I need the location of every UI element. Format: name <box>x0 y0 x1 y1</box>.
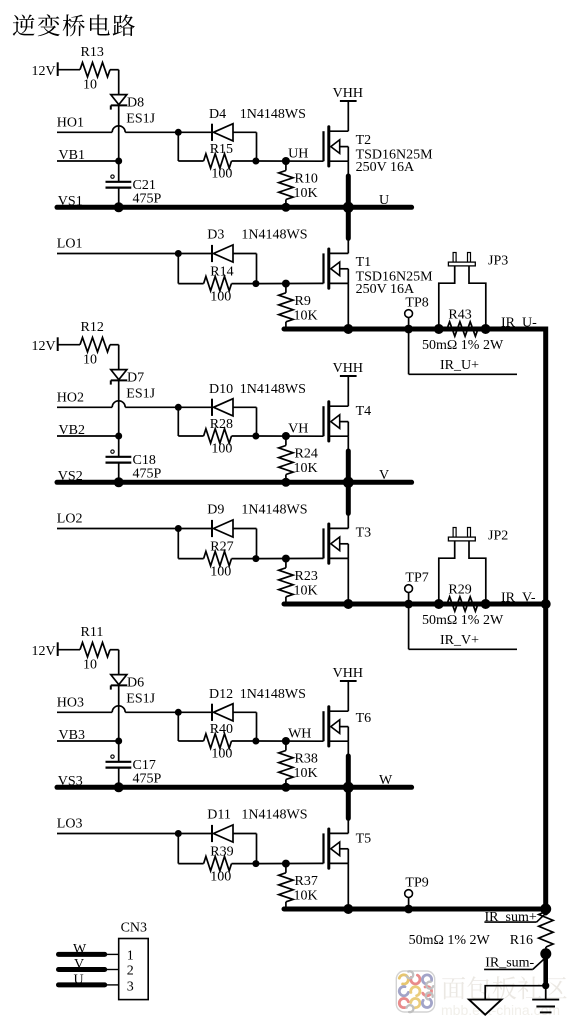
watermark logo mbb.eet-china.com <box>442 977 465 1000</box>
diode D6 ES1J <box>111 675 156 707</box>
svg-text:VB1: VB1 <box>59 148 85 163</box>
resistor R23 10K <box>279 559 318 604</box>
resistor R38 10K <box>279 741 318 792</box>
resistor R40 100 <box>178 712 259 761</box>
svg-text:LO3: LO3 <box>57 817 83 832</box>
svg-text:R9: R9 <box>295 294 311 309</box>
svg-text:HO1: HO1 <box>57 116 84 131</box>
svg-text:100: 100 <box>210 870 231 885</box>
svg-text:VB2: VB2 <box>59 423 85 438</box>
svg-text:IR_V-: IR_V- <box>501 591 536 606</box>
svg-text:1N4148WS: 1N4148WS <box>241 808 307 823</box>
svg-text:R39: R39 <box>210 844 233 859</box>
transistor T5 TSD16N25M <box>324 829 349 868</box>
wire <box>343 161 354 253</box>
jumper JP3 <box>453 253 456 263</box>
jumper JP2 <box>453 528 456 538</box>
svg-text:TP9: TP9 <box>405 876 428 891</box>
test point TP7 <box>405 585 413 593</box>
svg-text:1N4148WS: 1N4148WS <box>240 687 306 702</box>
wire <box>256 280 324 288</box>
title text 逆变桥电路 <box>13 14 35 35</box>
resistor R39 100 <box>178 834 259 885</box>
svg-text:IR_sum-: IR_sum- <box>485 956 534 971</box>
svg-text:10K: 10K <box>294 584 318 599</box>
svg-text:mbb.eet-china.com: mbb.eet-china.com <box>441 1002 560 1018</box>
node VHH <box>333 666 363 711</box>
transistor T6 TSD16N25M <box>324 707 349 746</box>
capacitor C21 475P <box>106 175 162 212</box>
svg-text:2: 2 <box>127 963 134 978</box>
wire <box>343 436 354 528</box>
transistor T1 TSD16N25M <box>324 249 434 297</box>
node VB2 <box>57 423 122 439</box>
svg-text:R37: R37 <box>295 874 318 889</box>
resistor R16 50mΩ <box>539 912 553 948</box>
svg-text:CN3: CN3 <box>121 921 147 936</box>
svg-text:D7: D7 <box>127 371 144 386</box>
svg-text:VHH: VHH <box>333 86 363 101</box>
svg-text:V: V <box>74 957 84 972</box>
node VB1 <box>57 148 122 164</box>
wire <box>347 283 349 329</box>
node V stub <box>59 967 105 972</box>
svg-text:10K: 10K <box>294 889 318 904</box>
svg-text:10: 10 <box>83 78 97 93</box>
wire <box>343 741 354 833</box>
svg-text:1N4148WS: 1N4148WS <box>241 228 307 243</box>
transistor T2 TSD16N25M <box>324 127 434 175</box>
svg-text:IR_U+: IR_U+ <box>440 358 479 373</box>
node IR_U+ <box>408 329 410 374</box>
node IR_V+ <box>408 604 410 649</box>
svg-text:475P: 475P <box>133 467 162 482</box>
svg-text:LO1: LO1 <box>57 237 83 252</box>
diode D7 ES1J <box>111 370 156 402</box>
resistor R24 10K <box>279 436 318 487</box>
wire <box>347 863 349 909</box>
svg-text:50mΩ 1% 2W: 50mΩ 1% 2W <box>422 613 504 628</box>
svg-text:D4: D4 <box>209 107 226 122</box>
svg-text:R28: R28 <box>210 417 233 432</box>
node W stub <box>59 952 105 957</box>
resistor R15 100 <box>178 132 259 181</box>
svg-text:ES1J: ES1J <box>126 691 155 706</box>
svg-text:VS1: VS1 <box>58 194 83 209</box>
node U stub <box>59 982 105 987</box>
svg-text:12V: 12V <box>32 64 56 79</box>
node VS1 / phase bus U <box>57 193 412 209</box>
wire phase V current bus <box>284 602 546 607</box>
svg-text:JP3: JP3 <box>488 254 508 269</box>
node VB3 <box>57 728 122 744</box>
svg-text:D3: D3 <box>207 228 224 243</box>
node 12V (section V) <box>32 337 81 354</box>
node VHH <box>333 361 363 406</box>
svg-text:HO3: HO3 <box>57 696 84 711</box>
svg-text:10: 10 <box>83 353 97 368</box>
node LO1 <box>57 237 182 257</box>
wire <box>118 106 120 182</box>
wire <box>347 558 349 604</box>
svg-text:R38: R38 <box>295 752 318 767</box>
svg-text:1N4148WS: 1N4148WS <box>241 503 307 518</box>
svg-text:3: 3 <box>127 979 134 994</box>
svg-text:100: 100 <box>210 565 231 580</box>
svg-text:100: 100 <box>211 442 232 457</box>
svg-text:VH: VH <box>288 421 308 436</box>
svg-text:WH: WH <box>288 726 311 741</box>
node VH <box>256 421 324 440</box>
svg-text:D10: D10 <box>209 382 233 397</box>
svg-text:VS3: VS3 <box>58 774 83 789</box>
resistor R12 <box>80 320 119 370</box>
svg-text:1N4148WS: 1N4148WS <box>240 107 306 122</box>
svg-text:D12: D12 <box>209 687 233 702</box>
diode D12 1N4148WS <box>178 687 306 741</box>
node 12V (section W) <box>32 642 81 659</box>
diode D11 1N4148WS <box>178 808 307 864</box>
svg-text:ES1J: ES1J <box>126 386 155 401</box>
svg-text:D6: D6 <box>127 676 144 691</box>
svg-text:IR_V+: IR_V+ <box>440 633 479 648</box>
capacitor C18 475P <box>106 450 162 487</box>
svg-text:250V 16A: 250V 16A <box>356 160 415 175</box>
svg-text:D9: D9 <box>207 503 224 518</box>
node VHH <box>333 86 363 131</box>
diode D8 ES1J <box>111 95 156 127</box>
svg-text:10K: 10K <box>294 309 318 324</box>
svg-text:IR_sum+: IR_sum+ <box>485 910 537 925</box>
svg-text:U: U <box>379 193 389 208</box>
svg-text:12V: 12V <box>32 644 56 659</box>
svg-text:T2: T2 <box>356 133 372 148</box>
svg-text:R13: R13 <box>81 45 104 60</box>
svg-text:50mΩ 1% 2W: 50mΩ 1% 2W <box>422 338 504 353</box>
svg-text:100: 100 <box>211 747 232 762</box>
diode D4 1N4148WS <box>178 107 306 161</box>
svg-text:W: W <box>73 942 87 957</box>
svg-text:12V: 12V <box>32 339 56 354</box>
svg-text:R40: R40 <box>210 722 233 737</box>
svg-text:10K: 10K <box>294 461 318 476</box>
capacitor C17 475P <box>106 755 162 792</box>
wire <box>256 860 324 868</box>
svg-text:UH: UH <box>288 146 308 161</box>
test point TP8 <box>405 310 413 318</box>
diode D10 1N4148WS <box>178 382 306 436</box>
svg-text:10: 10 <box>83 658 97 673</box>
diode D3 1N4148WS <box>178 228 307 284</box>
svg-text:V: V <box>379 468 389 483</box>
connector CN3 <box>119 939 149 1000</box>
svg-text:HO2: HO2 <box>57 391 84 406</box>
svg-text:R23: R23 <box>295 569 318 584</box>
svg-text:R24: R24 <box>295 447 318 462</box>
svg-text:VHH: VHH <box>333 666 363 681</box>
transistor T4 TSD16N25M <box>324 402 349 441</box>
svg-text:D8: D8 <box>127 96 144 111</box>
svg-text:10K: 10K <box>294 766 318 781</box>
resistor R11 <box>80 625 119 675</box>
svg-text:R15: R15 <box>210 142 233 157</box>
svg-text:R11: R11 <box>81 625 104 640</box>
node HO1 <box>57 116 182 136</box>
svg-text:TP8: TP8 <box>405 296 428 311</box>
svg-text:10K: 10K <box>294 186 318 201</box>
resistor R9 10K <box>279 284 318 329</box>
node WH <box>256 726 324 745</box>
wire phase U current bus and right rail <box>284 329 546 913</box>
node IR_sum- <box>484 968 533 970</box>
wire <box>118 686 120 762</box>
svg-text:T4: T4 <box>356 404 372 419</box>
svg-text:R29: R29 <box>448 583 471 598</box>
svg-text:T3: T3 <box>356 526 372 541</box>
wire <box>118 381 120 457</box>
svg-text:R27: R27 <box>210 539 233 554</box>
svg-text:1: 1 <box>127 949 134 964</box>
svg-text:R10: R10 <box>295 172 318 187</box>
test point TP9 <box>405 890 413 898</box>
resistor R14 100 <box>178 254 259 305</box>
resistor R27 100 <box>178 529 259 580</box>
node HO2 <box>57 391 182 411</box>
svg-text:R16: R16 <box>510 933 533 948</box>
svg-text:VB3: VB3 <box>59 728 85 743</box>
svg-text:W: W <box>379 773 393 788</box>
diode D9 1N4148WS <box>178 503 307 559</box>
resistor R29 50mΩ <box>434 599 444 609</box>
svg-text:50mΩ 1% 2W: 50mΩ 1% 2W <box>409 933 491 948</box>
svg-text:100: 100 <box>210 290 231 305</box>
node UH <box>256 146 324 165</box>
resistor R13 <box>80 45 119 95</box>
node IR_sum+ <box>484 921 536 923</box>
node LO2 <box>57 512 182 532</box>
node VS2 / phase bus V <box>57 468 412 484</box>
resistor R43 50mΩ <box>434 324 444 334</box>
resistor R10 10K <box>279 161 318 212</box>
svg-text:475P: 475P <box>133 772 162 787</box>
wire <box>543 954 548 985</box>
node HO3 <box>57 696 182 716</box>
svg-text:R43: R43 <box>448 308 471 323</box>
node LO3 <box>57 817 182 837</box>
svg-text:T5: T5 <box>356 831 372 846</box>
resistor R37 10K <box>279 864 318 909</box>
svg-text:T1: T1 <box>356 255 372 270</box>
wire phase W current bus <box>284 907 546 912</box>
svg-text:TP7: TP7 <box>405 571 428 586</box>
svg-text:R12: R12 <box>81 320 104 335</box>
svg-text:JP2: JP2 <box>488 529 508 544</box>
node VS3 / phase bus W <box>57 773 412 789</box>
ground (signal) <box>485 986 546 1000</box>
transistor T3 TSD16N25M <box>324 524 349 563</box>
svg-text:475P: 475P <box>133 192 162 207</box>
svg-text:U: U <box>74 973 84 988</box>
resistor R28 100 <box>178 407 259 456</box>
wire <box>256 555 324 563</box>
svg-text:LO2: LO2 <box>57 512 83 527</box>
svg-text:IR_U-: IR_U- <box>501 316 537 331</box>
svg-text:100: 100 <box>211 167 232 182</box>
ground (earth) <box>545 986 547 1000</box>
svg-text:D11: D11 <box>207 808 231 823</box>
svg-text:ES1J: ES1J <box>126 111 155 126</box>
svg-text:R14: R14 <box>210 264 233 279</box>
svg-text:VS2: VS2 <box>58 469 83 484</box>
svg-text:T6: T6 <box>356 711 372 726</box>
svg-text:VHH: VHH <box>333 361 363 376</box>
svg-text:1N4148WS: 1N4148WS <box>240 382 306 397</box>
node 12V (section U) <box>32 62 81 79</box>
